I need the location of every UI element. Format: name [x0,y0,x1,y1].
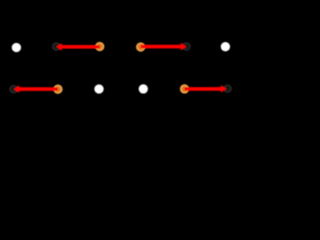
arrow D (points right from O4 to D4) [185,85,227,93]
ghost ball D4 (bottom-right target of arrow D) [223,84,232,93]
ghost ball D2 (top-right target of arrow B) [182,42,191,51]
arrow B (points right from O2 to D2) [141,43,187,51]
arrow A (points left from O1 to D1) [56,43,99,51]
orange ball O3 (tail of arrow C) [53,85,62,94]
ghost ball D3 (bottom-left target of arrow C) [9,85,18,94]
white ball W2 (top row, far right) [221,42,230,51]
ghost ball D1 (top-left target of arrow A) [52,42,61,51]
white ball W3 (bottom row, center-left) [94,84,103,93]
orange ball O2 (tail of arrow B) [136,42,145,51]
orange ball O4 (tail of arrow D) [180,84,189,93]
arrow C (points left from O3 to D3) [14,85,58,93]
white ball W1 (top row, far left) [12,43,21,52]
white ball W4 (bottom row, center-right) [139,84,148,93]
orange ball O1 (tail of arrow A) [95,42,104,51]
